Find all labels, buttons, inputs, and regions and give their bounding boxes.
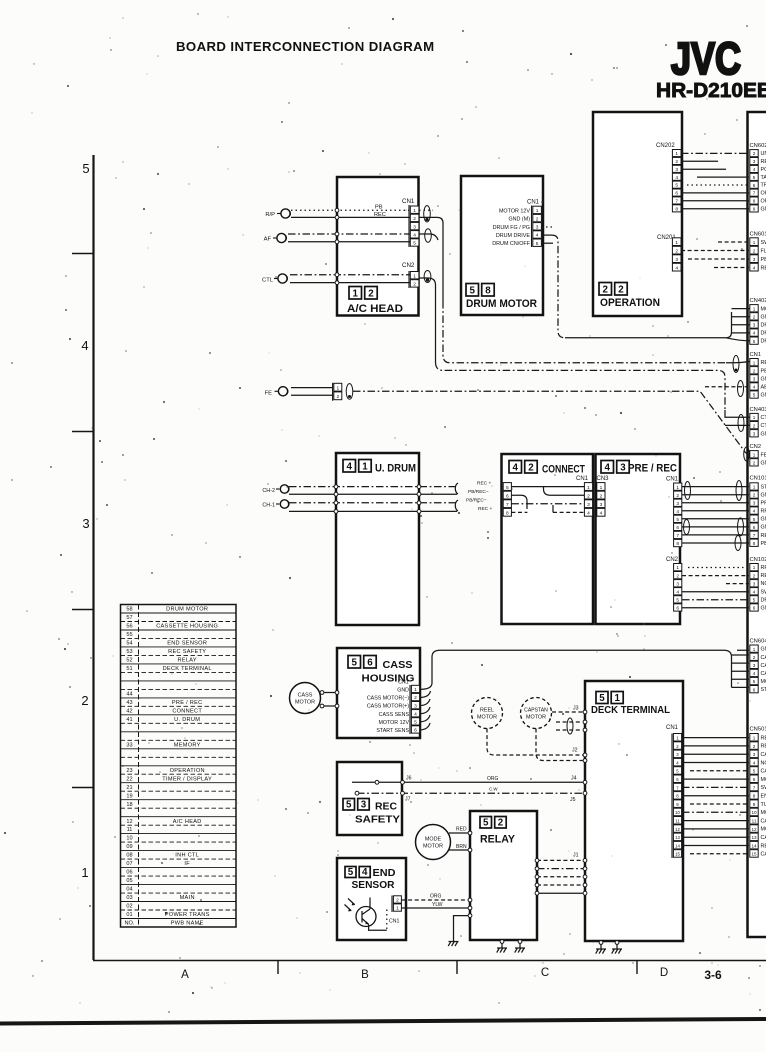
svg-text:B: B — [361, 969, 369, 981]
svg-text:J1: J1 — [573, 853, 579, 859]
svg-text:CONNECT: CONNECT — [172, 708, 202, 714]
svg-text:2: 2 — [396, 898, 399, 904]
svg-text:55: 55 — [126, 632, 132, 638]
svg-text:J6: J6 — [406, 776, 412, 782]
svg-text:1: 1 — [81, 865, 88, 880]
board box DECK TERMINAL (5|1) — [585, 681, 683, 941]
PWB name table — [121, 605, 237, 928]
svg-text:1: 1 — [753, 485, 756, 490]
svg-text:10: 10 — [675, 810, 680, 815]
svg-text:CAS: CAS — [761, 852, 766, 858]
svg-text:NO: NO — [761, 760, 766, 766]
svg-text:1: 1 — [536, 208, 539, 214]
svg-text:7: 7 — [676, 533, 679, 539]
svg-text:DRU: DRU — [761, 331, 766, 337]
svg-text:U. DRUM: U. DRUM — [375, 463, 416, 475]
svg-text:52: 52 — [126, 658, 132, 664]
svg-text:08: 08 — [126, 853, 132, 859]
svg-text:REC: REC — [761, 360, 766, 366]
svg-text:TF: TF — [761, 183, 766, 189]
svg-text:3: 3 — [600, 502, 603, 508]
board box A/C HEAD (1|2) — [337, 177, 419, 316]
svg-text:2: 2 — [587, 494, 590, 500]
wire stub MAIN CN1 pin4 (dashed) — [705, 386, 749, 388]
svg-text:4: 4 — [753, 266, 756, 271]
svg-text:3: 3 — [82, 516, 89, 531]
svg-text:3: 3 — [587, 502, 590, 508]
svg-text:CAS: CAS — [761, 671, 766, 677]
svg-text:2: 2 — [753, 315, 756, 320]
wire CONNECT interior path 3 (dash-dot) — [511, 503, 584, 505]
svg-text:9: 9 — [753, 802, 756, 807]
svg-text:DECK TERMINAL: DECK TERMINAL — [591, 705, 670, 716]
svg-text:GND: GND — [761, 517, 766, 523]
svg-text:5: 5 — [753, 393, 756, 398]
wire CTL pin2 (solid) — [290, 281, 410, 285]
svg-text:8: 8 — [753, 794, 756, 799]
wire CAPSTAN MOTOR to deck (dashed) — [536, 729, 587, 763]
svg-text:2: 2 — [753, 744, 756, 749]
svg-text:6: 6 — [676, 606, 679, 612]
svg-text:2: 2 — [81, 693, 88, 708]
svg-text:CN101: CN101 — [750, 476, 766, 482]
svg-text:MOTOR: MOTOR — [477, 715, 497, 721]
svg-text:2: 2 — [675, 159, 678, 165]
svg-text:5: 5 — [753, 339, 756, 344]
svg-text:CAS: CAS — [761, 769, 766, 775]
svg-text:END: END — [373, 868, 396, 879]
svg-text:CN3: CN3 — [597, 476, 610, 482]
svg-text:2: 2 — [753, 655, 756, 660]
svg-text:CTL: CTL — [761, 423, 766, 429]
svg-text:CASS MOTOR(+): CASS MOTOR(+) — [367, 704, 409, 710]
left ruler tick 3/2 — [72, 609, 93, 611]
wire CH-1 PB/REC- (dash-dot) — [289, 501, 457, 505]
bottom ruler tick A/B — [277, 961, 279, 975]
wire bundle CN202 to MAIN CN602 — [681, 153, 749, 208]
svg-text:6: 6 — [676, 525, 679, 531]
svg-text:3: 3 — [675, 257, 678, 263]
svg-text:13: 13 — [751, 835, 757, 840]
svg-text:GND: GND — [761, 647, 766, 653]
svg-text:CN2: CN2 — [402, 262, 415, 269]
svg-text:REC: REC — [761, 573, 766, 579]
svg-text:33: 33 — [126, 742, 132, 748]
svg-text:1: 1 — [396, 906, 399, 912]
svg-text:6: 6 — [753, 525, 756, 530]
svg-text:9: 9 — [753, 207, 756, 212]
svg-text:3: 3 — [753, 323, 756, 328]
svg-text:D: D — [660, 967, 668, 979]
svg-text:3-6: 3-6 — [704, 968, 722, 982]
svg-text:4: 4 — [414, 711, 417, 717]
pin labels CASS HOUSING CN1 — [367, 688, 410, 735]
bottom ruler tick B/C — [456, 961, 458, 975]
jack CH-1 — [262, 500, 289, 509]
svg-text:4: 4 — [600, 511, 603, 517]
board box MAIN (right edge, cut off) — [748, 112, 766, 937]
svg-text:GND: GND — [761, 393, 766, 399]
svg-text:05: 05 — [126, 878, 132, 884]
svg-text:1: 1 — [414, 687, 417, 693]
svg-text:J4: J4 — [571, 776, 577, 782]
svg-text:C: C — [541, 967, 549, 979]
svg-text:OPE: OPE — [761, 199, 766, 205]
svg-text:51: 51 — [126, 666, 132, 672]
svg-text:54: 54 — [126, 641, 132, 647]
svg-text:POWER TRANS: POWER TRANS — [165, 912, 210, 918]
svg-text:4: 4 — [753, 385, 756, 390]
svg-text:1: 1 — [753, 240, 756, 245]
svg-text:CN403: CN403 — [750, 407, 766, 413]
wire DRUM MOTOR pin3 stub (dotted) — [542, 226, 554, 228]
svg-text:01: 01 — [126, 912, 132, 918]
connector CN2 (MAIN) pins — [750, 444, 766, 466]
svg-text:09: 09 — [126, 844, 132, 850]
svg-text:14: 14 — [675, 843, 680, 848]
svg-text:41: 41 — [126, 717, 132, 723]
svg-text:18: 18 — [126, 802, 132, 808]
svg-text:4: 4 — [675, 175, 678, 181]
svg-text:8: 8 — [753, 199, 756, 204]
svg-text:1: 1 — [753, 452, 756, 457]
svg-text:GND: GND — [397, 688, 409, 694]
svg-text:5: 5 — [352, 657, 358, 668]
svg-text:REC: REC — [761, 533, 766, 539]
svg-text:57: 57 — [126, 615, 132, 621]
svg-text:4: 4 — [753, 760, 756, 765]
svg-text:CN601: CN601 — [750, 231, 766, 237]
svg-text:REC: REC — [761, 843, 766, 849]
svg-text:CN1: CN1 — [576, 476, 589, 482]
svg-text:5: 5 — [346, 799, 352, 810]
svg-text:CH-2: CH-2 — [262, 488, 275, 494]
svg-text:2: 2 — [368, 288, 374, 299]
svg-text:8: 8 — [506, 511, 509, 517]
cable loop at MAIN CN403 — [738, 415, 744, 432]
svg-text:5: 5 — [753, 175, 756, 180]
svg-text:21: 21 — [126, 785, 132, 791]
svg-text:RELAY: RELAY — [177, 658, 196, 664]
svg-text:MOT: MOT — [761, 679, 766, 685]
connector CN1 (A/C HEAD) pins 1-5 — [402, 198, 419, 247]
svg-text:7: 7 — [753, 191, 756, 196]
wire bundle PRE/REC CN1 to MAIN CN101 — [682, 487, 749, 543]
svg-text:3: 3 — [620, 462, 626, 473]
svg-text:SAFETY: SAFETY — [355, 815, 401, 826]
svg-text:MAIN: MAIN — [180, 895, 195, 901]
svg-text:CASS: CASS — [383, 660, 413, 671]
svg-text:A: A — [181, 969, 189, 981]
motor circle MODE MOTOR — [416, 825, 451, 860]
svg-text:3: 3 — [753, 431, 756, 436]
wire CONNECT interior path 2 — [511, 487, 584, 509]
svg-text:1: 1 — [676, 485, 679, 491]
svg-text:8: 8 — [753, 541, 756, 546]
svg-text:5: 5 — [753, 598, 756, 603]
svg-text:FL: FL — [761, 248, 766, 254]
svg-text:ST: ST — [761, 484, 766, 490]
svg-text:5: 5 — [413, 241, 416, 247]
svg-text:5: 5 — [753, 769, 756, 774]
svg-text:CN1: CN1 — [402, 198, 415, 205]
svg-text:5: 5 — [483, 817, 489, 828]
svg-text:5: 5 — [753, 679, 756, 684]
wire REEL MOTOR to deck J2 (dashed) — [487, 729, 587, 757]
svg-text:2: 2 — [536, 216, 539, 222]
svg-text:ORG: ORG — [430, 893, 442, 899]
svg-text:3: 3 — [413, 224, 416, 230]
svg-text:1: 1 — [753, 565, 756, 570]
jack R/P — [265, 209, 290, 218]
svg-text:2: 2 — [676, 493, 679, 499]
svg-text:6: 6 — [753, 606, 756, 611]
wire CASS MOTOR upper — [320, 691, 339, 695]
svg-text:MOTOR 12V: MOTOR 12V — [378, 720, 409, 726]
svg-text:2: 2 — [618, 284, 624, 295]
cable loop at MAIN CN2 — [744, 447, 750, 461]
svg-text:3: 3 — [753, 377, 756, 382]
svg-text:CN402: CN402 — [750, 298, 766, 304]
svg-text:CN1: CN1 — [666, 725, 679, 731]
board box CONNECT (4|2) — [502, 454, 594, 624]
wire FE pair to inline connector — [291, 388, 333, 396]
svg-text:BRN: BRN — [456, 844, 467, 850]
wire bundle CN201 to MAIN CN601 (dashed) — [681, 242, 749, 268]
deck bottom ground 1 — [596, 941, 606, 954]
svg-text:4: 4 — [81, 338, 88, 353]
svg-text:2: 2 — [676, 573, 679, 579]
svg-text:CN2: CN2 — [750, 444, 762, 450]
svg-text:GND: GND — [761, 431, 766, 437]
svg-text:1: 1 — [600, 485, 603, 491]
bottom ruler line — [93, 960, 766, 962]
svg-text:6: 6 — [675, 191, 678, 197]
svg-text:2: 2 — [413, 216, 416, 222]
svg-text:SW: SW — [761, 589, 766, 595]
svg-text:TIMER / DISPLAY: TIMER / DISPLAY — [162, 776, 212, 782]
svg-text:12: 12 — [126, 819, 132, 825]
svg-text:2: 2 — [336, 394, 339, 400]
svg-text:DRUM FG / PG: DRUM FG / PG — [493, 225, 530, 231]
connector CN201 (OPERATION) pins 1-4 — [657, 235, 681, 272]
connector CN1 (DECK TERMINAL) pins 1-15 — [666, 725, 682, 858]
svg-text:11: 11 — [675, 819, 680, 824]
bottom page edge line — [0, 1019, 766, 1024]
svg-text:OPE: OPE — [761, 191, 766, 197]
svg-text:4: 4 — [513, 462, 519, 473]
svg-text:4: 4 — [605, 462, 611, 473]
svg-text:CN1: CN1 — [666, 477, 679, 483]
jack CTL — [262, 274, 287, 284]
svg-text:14: 14 — [751, 843, 757, 848]
svg-text:CN102: CN102 — [750, 557, 766, 563]
svg-text:5: 5 — [414, 720, 417, 726]
svg-text:PRE / REC: PRE / REC — [628, 463, 677, 475]
cable loop at CN1 upper — [424, 206, 431, 222]
cable loop at CN2 — [424, 271, 431, 283]
connector CN1 (DRUM MOTOR) pins 1-5 — [527, 200, 541, 248]
svg-text:PWB NAME: PWB NAME — [171, 921, 204, 927]
wire bundle CASS CN1 to MAIN CN604 — [420, 650, 749, 730]
svg-text:2: 2 — [413, 282, 416, 288]
svg-text:2: 2 — [414, 695, 417, 701]
junction dot CN2 loop — [426, 278, 429, 281]
svg-text:CAS: CAS — [761, 655, 766, 661]
svg-text:UNSW: UNSW — [761, 151, 766, 157]
svg-text:04: 04 — [126, 887, 132, 893]
svg-text:J7: J7 — [405, 797, 411, 803]
svg-text:DRUM MOTOR: DRUM MOTOR — [166, 607, 208, 613]
deck bottom ground 2 — [612, 941, 622, 954]
svg-text:CAPSTAN: CAPSTAN — [524, 708, 548, 714]
svg-text:2: 2 — [753, 368, 756, 373]
motor circle REEL MOTOR (dashed) — [472, 698, 503, 729]
svg-text:PRE / REC: PRE / REC — [172, 700, 203, 706]
wire deck J3 stub (dashed) — [552, 706, 587, 714]
svg-text:REC: REC — [761, 159, 766, 165]
svg-text:3: 3 — [753, 257, 756, 262]
svg-text:GND: GND — [761, 493, 766, 499]
svg-text:1: 1 — [753, 647, 756, 652]
svg-text:4: 4 — [347, 461, 353, 472]
svg-text:6: 6 — [367, 657, 373, 668]
svg-text:5: 5 — [676, 598, 679, 604]
svg-text:1: 1 — [676, 565, 679, 571]
svg-text:CTL: CTL — [761, 415, 766, 421]
svg-text:ORG: ORG — [487, 776, 499, 782]
svg-text:8: 8 — [676, 541, 679, 547]
svg-text:2: 2 — [753, 249, 756, 254]
wire bundle A/C CN1 to MAIN CN1 — [419, 210, 752, 362]
svg-text:1: 1 — [675, 151, 678, 157]
svg-text:11: 11 — [752, 819, 757, 824]
svg-text:RF: RF — [761, 565, 766, 571]
svg-text:PB: PB — [761, 257, 766, 263]
left ruler line — [92, 155, 94, 960]
svg-text:MOTOR: MOTOR — [423, 844, 443, 850]
signal labels REC/PB at CONNECT left — [466, 481, 492, 513]
svg-text:AF: AF — [264, 237, 272, 243]
svg-text:8: 8 — [675, 206, 678, 212]
svg-text:5: 5 — [470, 285, 476, 296]
wire CONNECT interior path 1 — [511, 486, 584, 488]
svg-text:CAS: CAS — [761, 835, 766, 841]
svg-text:MOT: MOT — [761, 777, 766, 783]
svg-text:HR-D210EB: HR-D210EB — [656, 79, 766, 102]
svg-text:5: 5 — [348, 867, 354, 878]
svg-text:07: 07 — [126, 861, 132, 867]
svg-text:J5: J5 — [570, 797, 576, 803]
svg-text:MOT: MOT — [761, 306, 766, 312]
connector CN1 (CASS HOUSING) pins 1-6 — [398, 680, 420, 735]
svg-text:CN1: CN1 — [527, 200, 540, 206]
cable loops PRE/REC CN1 right — [735, 481, 744, 551]
svg-text:1: 1 — [413, 208, 416, 214]
svg-text:DRU: DRU — [761, 323, 766, 329]
svg-text:13: 13 — [675, 835, 680, 840]
scan noise specks (top layer) — [113, 119, 751, 994]
svg-text:GND: GND — [761, 314, 766, 320]
svg-text:CASS MOTOR(−): CASS MOTOR(−) — [367, 696, 409, 702]
svg-text:REC +: REC + — [478, 506, 492, 512]
board box END SENSOR (5|4) — [337, 858, 406, 940]
svg-text:3: 3 — [753, 159, 756, 164]
svg-text:15: 15 — [751, 852, 757, 857]
svg-text:4: 4 — [753, 589, 756, 594]
svg-text:JVC: JVC — [671, 33, 741, 84]
svg-text:10: 10 — [126, 836, 132, 842]
deck left edge nodes with loop — [556, 718, 587, 734]
svg-text:3: 3 — [361, 799, 367, 810]
svg-text:06: 06 — [126, 870, 132, 876]
svg-text:4: 4 — [676, 509, 679, 515]
svg-text:TU: TU — [761, 802, 766, 808]
svg-text:AB: AB — [761, 385, 766, 391]
svg-text:GND: GND — [761, 460, 766, 466]
svg-text:3: 3 — [753, 663, 756, 668]
board box CASS HOUSING (5|6) — [337, 648, 420, 738]
wire bundle DECK CN1 to MAIN CN501 — [682, 738, 749, 854]
svg-text:OPERATION: OPERATION — [170, 768, 205, 774]
wire bundle DRUM MOTOR to MAIN CN402 — [542, 235, 753, 341]
wire END SENSOR ORG (dashed) — [402, 893, 472, 902]
svg-text:6: 6 — [753, 687, 756, 692]
svg-text:22: 22 — [126, 776, 132, 782]
svg-text:5: 5 — [82, 161, 89, 176]
svg-text:POWER: POWER — [761, 167, 766, 173]
svg-text:3: 3 — [675, 167, 678, 173]
svg-text:3: 3 — [753, 501, 756, 506]
svg-text:2: 2 — [753, 423, 756, 428]
svg-text:42: 42 — [126, 708, 132, 714]
svg-text:CASS SENS: CASS SENS — [379, 712, 410, 718]
svg-text:CONNECT: CONNECT — [542, 464, 585, 476]
svg-text:2: 2 — [753, 151, 756, 156]
svg-text:4: 4 — [753, 331, 756, 336]
connector CN1 (END SENSOR) pins 2-1 — [389, 896, 401, 925]
svg-text:DR: DR — [761, 597, 766, 603]
wire AF pin5 (solid) — [288, 240, 410, 244]
svg-text:CN602: CN602 — [750, 143, 766, 149]
svg-text:MEMORY: MEMORY — [174, 742, 201, 748]
svg-text:FE: FE — [761, 452, 766, 458]
svg-text:PB: PB — [375, 205, 383, 211]
svg-text:15: 15 — [675, 852, 680, 857]
svg-text:1: 1 — [753, 360, 756, 365]
svg-text:OPERATION: OPERATION — [600, 297, 660, 309]
svg-text:6: 6 — [753, 183, 756, 188]
svg-text:CAS: CAS — [761, 818, 766, 824]
svg-text:2: 2 — [498, 817, 504, 828]
svg-text:4: 4 — [753, 167, 756, 172]
svg-text:CN2: CN2 — [666, 557, 679, 563]
connector CN601 (MAIN) pins — [750, 231, 766, 271]
svg-text:4: 4 — [753, 509, 756, 514]
svg-text:J2: J2 — [572, 748, 578, 754]
connector CN604 (MAIN) pins — [750, 639, 766, 694]
connector CN2 (PRE/REC) pins 1-6 — [666, 557, 682, 612]
svg-text:U. DRUM: U. DRUM — [174, 717, 200, 723]
svg-text:GND: GND — [761, 376, 766, 382]
pin labels DRUM MOTOR CN1 — [492, 209, 530, 248]
svg-text:C.W: C.W — [489, 787, 498, 792]
svg-text:5: 5 — [675, 183, 678, 189]
svg-text:3: 3 — [753, 581, 756, 586]
wire J6/ORG to deck J4 (solid) — [352, 780, 587, 784]
svg-text:R/P: R/P — [265, 212, 275, 218]
svg-text:A/C HEAD: A/C HEAD — [173, 819, 202, 825]
